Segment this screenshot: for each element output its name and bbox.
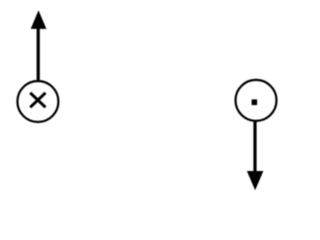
- node A: circle of into-page symbol (left): [17, 81, 58, 122]
- X mark: current into page (left symbol): [30, 93, 45, 108]
- wire: right arrow shaft (downward): [253, 121, 256, 172]
- node B: circle of out-of-page symbol (right): [236, 80, 277, 121]
- dot mark: current out of page (right symbol): [252, 99, 258, 105]
- wire: left arrow shaft (upward): [37, 28, 40, 82]
- arrowhead: right arrow tip (down): [247, 171, 264, 190]
- arrowhead: left arrow tip (up): [31, 10, 47, 29]
